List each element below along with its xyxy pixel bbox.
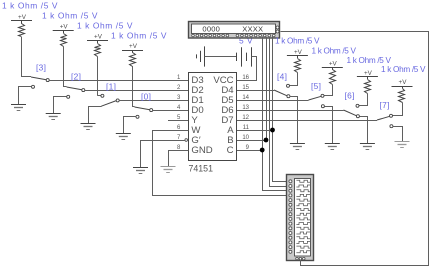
junction node C: [260, 148, 265, 153]
ground for switch [1]: [88, 123, 90, 125]
wire resistor R2 to switch pivot: [63, 47, 65, 88]
svg-text:XXXX: XXXX: [242, 25, 263, 34]
wire ground contact to ground: [290, 97, 298, 144]
logic analyzer screen: [295, 179, 311, 257]
svg-text:+V: +V: [60, 24, 69, 31]
ground for switch [0]: [123, 117, 125, 134]
switch S2 common contact: [82, 89, 85, 92]
svg-text:1 k Ohm /5 V: 1 k Ohm /5 V: [42, 11, 98, 21]
wire IC pin 15 to switch [4] pole: [237, 90, 274, 92]
switch S7 blade: [377, 116, 390, 120]
wire ground contact to ground: [360, 117, 368, 144]
svg-text:+V: +V: [399, 79, 408, 86]
junction node B: [264, 138, 269, 143]
svg-text:1 k Ohm /5 V: 1 k Ohm /5 V: [77, 21, 133, 31]
svg-text:[2]: [2]: [71, 71, 81, 81]
wire word generator bit to B: [266, 37, 268, 140]
switch S7 +V contact: [390, 114, 393, 117]
word generator bottom terminals: [192, 34, 195, 37]
ground at G-bar: [133, 167, 148, 169]
logic analyzer bottom terminals C Q T: [296, 257, 299, 260]
svg-text:[1]: [1]: [106, 82, 116, 92]
word generator screen: [192, 24, 276, 34]
ground at IC GND pin (gray): [161, 166, 176, 168]
switch S0 ground throw (open): [136, 115, 139, 118]
battery V1 right cells: [236, 53, 238, 61]
wire IC pin 12 to switch [7] pole: [237, 120, 377, 122]
wire A select pin 11: [237, 130, 273, 132]
svg-text:+V: +V: [294, 49, 303, 56]
switch S2 ground throw (open): [67, 95, 70, 98]
svg-text:1 k Ohm /5 V: 1 k Ohm /5 V: [2, 1, 58, 11]
switch S1 +V throw (open): [101, 94, 104, 97]
wire switch [2] to IC pin 2: [85, 90, 188, 92]
switch S0 common contact: [150, 109, 153, 112]
switch S6 ground contact: [356, 115, 359, 118]
wire resistor R1 down to open throw: [97, 57, 99, 96]
battery V1 5V cells: [196, 54, 198, 58]
wire GND pin 8 to ground: [169, 151, 189, 167]
svg-text:[7]: [7]: [380, 100, 390, 110]
switch S3 common contact: [46, 79, 49, 82]
svg-text:74151: 74151: [189, 164, 214, 174]
wire ground throw to ground: [124, 117, 137, 134]
G-bar inversion bubble pin 7: [185, 139, 188, 142]
switch S6 +V contact: [356, 104, 359, 107]
svg-text:+V: +V: [129, 43, 138, 50]
switch S7 ground contact: [390, 125, 393, 128]
wire resistor R6 down to +V contact: [359, 94, 368, 106]
wire W output pin 6 to logic analyzer channel 4: [153, 131, 289, 196]
svg-text:1 k Ohm /5 V: 1 k Ohm /5 V: [312, 47, 357, 56]
wire ground contact to ground: [393, 127, 403, 142]
svg-text:[4]: [4]: [277, 72, 287, 82]
wire ground throw to ground: [54, 97, 67, 114]
svg-text:C: C: [227, 145, 234, 156]
svg-text:+V: +V: [329, 61, 338, 68]
ground for switch [7]: [395, 141, 410, 143]
switch S6 blade: [344, 110, 357, 116]
svg-text:1 k Ohm /5 V: 1 k Ohm /5 V: [275, 37, 320, 46]
junction node A: [270, 128, 275, 133]
wire B select pin 10: [237, 140, 266, 142]
wire word generator bit to A and analyzer ch1: [273, 37, 291, 182]
wire resistor R5 down to +V contact: [324, 85, 333, 96]
svg-text:+V: +V: [364, 70, 373, 77]
wire switch [0] to IC pin 4: [153, 110, 188, 112]
switch S4 ground contact: [287, 95, 290, 98]
wire switch [1] to IC pin 3: [119, 100, 188, 102]
wire battery mid: [204, 56, 236, 58]
word generator XWG1 body: [189, 22, 280, 39]
wire C select pin 9: [237, 150, 262, 152]
svg-text:[6]: [6]: [345, 91, 355, 101]
wire word generator T terminal to logic analyzer clock (outer loop): [281, 32, 429, 266]
ground for switch [2]: [53, 97, 55, 114]
ground for switch [5]: [325, 143, 340, 145]
wire Y output stub pin 5: [168, 120, 188, 122]
ground for switch [6]: [360, 143, 375, 145]
wire switch [3] to IC pin 1: [49, 80, 188, 82]
wire resistor R4 down to +V contact: [290, 73, 298, 86]
wire ground contact to ground: [325, 107, 333, 144]
wire resistor R0 to switch pivot: [132, 66, 134, 107]
wire IC pin 14 to switch [5] pole: [237, 100, 309, 102]
svg-text:[0]: [0]: [141, 92, 151, 102]
switch S5 ground contact: [321, 105, 324, 108]
svg-text:GND: GND: [191, 145, 212, 156]
wire battery to VCC pin 16: [237, 57, 257, 81]
switch S1 blade (closed to ground): [101, 101, 116, 107]
switch S5 blade: [309, 96, 322, 100]
wire ground throw to ground: [19, 87, 32, 105]
svg-text:+V: +V: [94, 34, 103, 41]
switch S0 blade (closed to +V): [133, 106, 135, 108]
switch S5 +V contact: [321, 94, 324, 97]
switch S4 blade: [274, 90, 287, 96]
wire ground to switch pivot: [89, 107, 102, 124]
switch S1 common contact: [116, 99, 119, 102]
switch S4 +V contact: [287, 84, 290, 87]
svg-text:1 k Ohm /5 V: 1 k Ohm /5 V: [347, 56, 392, 65]
svg-text:[5]: [5]: [311, 81, 321, 91]
op IC U1 74151 multiplexer body: [189, 73, 237, 161]
wire word generator bit to C and analyzer ch3: [263, 37, 291, 191]
svg-text:1 k Ohm /5 V: 1 k Ohm /5 V: [111, 31, 167, 41]
wire word generator bit to analyzer ch2: [270, 37, 291, 187]
svg-text:0000: 0000: [202, 25, 220, 34]
ground for switch [4]: [290, 143, 305, 145]
svg-text:+V: +V: [18, 14, 27, 21]
wire IC pin 13 to switch [6] pole: [237, 110, 344, 112]
svg-text:[3]: [3]: [36, 63, 46, 73]
wire resistor R7 down to +V contact: [393, 103, 403, 116]
wire resistor R3 to switch pivot: [21, 37, 23, 77]
ground for switch [3]: [18, 87, 20, 105]
logic analyzer XLA1 body: [287, 175, 314, 261]
logic analyzer input terminals: [289, 180, 292, 183]
svg-text:1 k Ohm /5 V: 1 k Ohm /5 V: [381, 65, 426, 74]
switch S3 blade (closed to +V): [22, 76, 32, 78]
wire G-bar pin 7 to ground: [141, 141, 185, 168]
word generator R T terminals: [276, 26, 279, 29]
switch S2 blade (closed to +V): [63, 86, 66, 88]
logic analyzer waveform traces: [296, 180, 310, 182]
switch S3 ground throw (open): [32, 85, 35, 88]
